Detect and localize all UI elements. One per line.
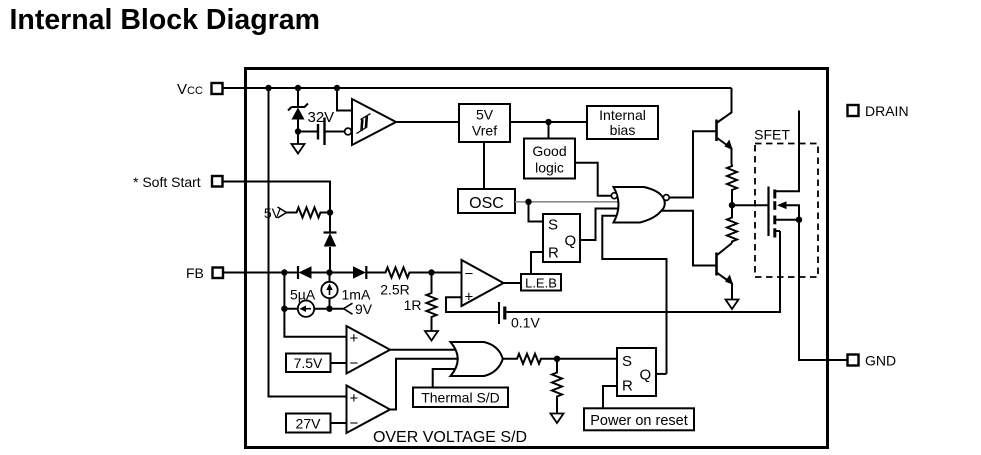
svg-text:Internal Block Diagram: Internal Block Diagram (10, 4, 320, 36)
node SFET source junction (796, 217, 802, 223)
wire comparator plus input to battery (446, 297, 498, 312)
wire FB line (223, 272, 462, 274)
9V source arrow (344, 301, 373, 317)
svg-text:+: + (350, 330, 359, 347)
svg-text:OVER VOLTAGE S/D: OVER VOLTAGE S/D (373, 429, 527, 446)
svg-text:Thermal S/D: Thermal S/D (421, 390, 500, 406)
wire OSC node to S input of latch U2 (529, 202, 544, 222)
svg-text:logic: logic (535, 160, 564, 176)
resistor 2.5R (380, 268, 412, 298)
wire sense line battery to SFET source (506, 231, 780, 312)
wire NOR output to upper transistor base (669, 131, 716, 197)
ground below pulldown (551, 414, 564, 424)
block 5V Vref (459, 104, 510, 142)
pin GND (848, 353, 897, 369)
transistor M1 SFET mosfet (769, 111, 800, 238)
wire down to Good logic (548, 122, 550, 139)
wire Vref to Internal bias (510, 121, 587, 123)
node junction Vcc/schmitt (334, 85, 340, 91)
pin FB (186, 265, 223, 281)
wire zener branch (297, 88, 299, 107)
svg-text:Good: Good (532, 143, 566, 159)
svg-text:Power on reset: Power on reset (590, 413, 688, 429)
resistor soft start 5V (294, 208, 330, 218)
svg-text:9V: 9V (355, 301, 373, 317)
wire POR-Q to NOR input 4 (602, 216, 666, 374)
svg-text:1R: 1R (404, 297, 422, 313)
wire Vref to OSC (483, 142, 485, 189)
resistor pulldown (552, 359, 562, 414)
current source 5uA (290, 287, 316, 317)
wire Vcc rail (223, 87, 732, 89)
node Vref/Good logic junction (545, 119, 551, 125)
svg-text:2.5R: 2.5R (380, 282, 410, 298)
wire Good logic to NOR input 1 (575, 163, 611, 196)
wire OSC to NOR input 2 (gray) (515, 201, 620, 203)
svg-text:7.5V: 7.5V (294, 355, 323, 371)
svg-text:SFET: SFET (754, 127, 790, 143)
op-amp U5 comparator 7.5V (347, 326, 391, 374)
pin Soft Start (133, 174, 223, 190)
svg-text:5µA: 5µA (290, 287, 316, 303)
svg-text:R: R (548, 245, 559, 262)
capacitor (318, 118, 345, 146)
node 5uA line junction (281, 306, 287, 312)
svg-text:DRAIN: DRAIN (865, 103, 909, 119)
wire 9V rail (284, 308, 343, 310)
block Power on reset (584, 408, 694, 430)
latch U2 SR (543, 214, 580, 262)
block L.E.B (521, 274, 561, 291)
svg-text:bias: bias (610, 122, 636, 138)
wire Vcc sense vertical to 27V comparator (269, 88, 347, 397)
pin VCC (177, 81, 223, 98)
zener diode 32V (288, 104, 334, 132)
node OSC/S junction (525, 199, 531, 205)
node totem mid / gate drive (729, 202, 735, 208)
node zener/cap junction (295, 128, 301, 134)
wire comparator A output to OR gate (390, 349, 460, 351)
svg-text:−: − (350, 415, 359, 432)
diode D2 (points right) (353, 266, 366, 279)
node FB/5uA junction (281, 269, 287, 275)
wire POR latch R input (603, 386, 617, 408)
5V source arrow (264, 205, 294, 221)
ground below zener (292, 144, 305, 154)
wire soft start horizontal (223, 182, 331, 213)
resistor 1R (404, 273, 437, 332)
svg-text:5V: 5V (476, 107, 494, 123)
svg-text:OSC: OSC (469, 195, 504, 212)
op-amp U4 current sense comparator (462, 260, 504, 306)
block Internal bias (587, 106, 658, 139)
wire POR latch Q up (656, 373, 667, 375)
node FB/softstart junction (326, 269, 332, 275)
current source 1mA (321, 282, 371, 303)
wire thermal to OR gate (433, 369, 460, 388)
node junction Vcc/zener (295, 85, 301, 91)
svg-text:L.E.B: L.E.B (525, 276, 557, 291)
wire gate drive to SFET (732, 204, 768, 206)
gate U7 OR (3-input) (451, 342, 503, 376)
ground below 1R (425, 331, 438, 341)
wire soft start vertical through diode (329, 213, 332, 309)
svg-text:S: S (548, 217, 558, 234)
diode D1 (points left) (298, 266, 312, 279)
svg-text:+: + (350, 390, 359, 407)
svg-text:* Soft Start: * Soft Start (133, 174, 201, 190)
wire schmitt output to 5V Vref (396, 121, 459, 123)
svg-text:GND: GND (865, 353, 896, 369)
diode D3 (points up) (324, 233, 337, 247)
svg-text:S: S (622, 353, 632, 370)
node FB/1R junction (428, 269, 434, 275)
svg-text:−: − (465, 266, 474, 283)
op-amp U1 schmitt trigger UVLO (345, 99, 396, 145)
wire OR output through resistor to POR latch (504, 358, 618, 360)
block Thermal S/D (413, 388, 508, 408)
block 7.5V (286, 354, 347, 373)
wire latch Q to NOR input 3 (580, 209, 620, 241)
svg-text:Q: Q (565, 233, 577, 250)
wire latch R to L.E.B (531, 252, 543, 274)
svg-text:27V: 27V (296, 416, 322, 432)
latch U8 SR power-on-reset (617, 348, 656, 396)
wire SFET source to GND pin (799, 220, 848, 360)
svg-text:32V: 32V (308, 109, 335, 126)
resistor R2 totem lower (727, 205, 737, 243)
svg-text:R: R (622, 378, 633, 395)
wire zener node to capacitor (298, 131, 317, 133)
svg-text:Vref: Vref (472, 123, 497, 139)
wire comparator output to LEB (504, 282, 522, 284)
node FB node to 9V rail (326, 306, 332, 312)
resistor R1 totem upper (727, 165, 737, 206)
svg-text:−: − (350, 355, 359, 372)
svg-text:0.1V: 0.1V (511, 315, 540, 331)
wire NOR lower to lower transistor base (661, 211, 716, 266)
ground below Q2 (726, 300, 739, 310)
block 27V (286, 414, 347, 433)
main block boundary (246, 69, 828, 448)
node OVP/pulldown junction (554, 356, 560, 362)
svg-text:+: + (465, 289, 474, 306)
resistor OVP (515, 354, 544, 364)
SFET dashed box (754, 127, 818, 278)
transistor Q1 upper NPN (717, 88, 733, 165)
svg-text:Q: Q (640, 367, 652, 384)
block Good logic (524, 139, 575, 179)
node softstart/5V junction (327, 209, 333, 215)
transistor Q2 lower NPN (717, 243, 734, 300)
pin DRAIN (848, 103, 909, 119)
op-amp U6 comparator 27V (347, 386, 391, 434)
gate U3 NOR (4-input) (611, 187, 669, 223)
wire to ground under zener (297, 132, 299, 145)
wire comparator B output to OR gate (390, 359, 460, 410)
wire FB sense down to comparator A (284, 273, 346, 337)
block OSC (458, 189, 515, 213)
svg-text:Internal: Internal (599, 107, 646, 123)
battery 0.1V (499, 302, 540, 331)
node junction Vcc/sense (265, 85, 271, 91)
wire Vcc to schmitt input (337, 88, 352, 111)
svg-text:FB: FB (186, 265, 204, 281)
